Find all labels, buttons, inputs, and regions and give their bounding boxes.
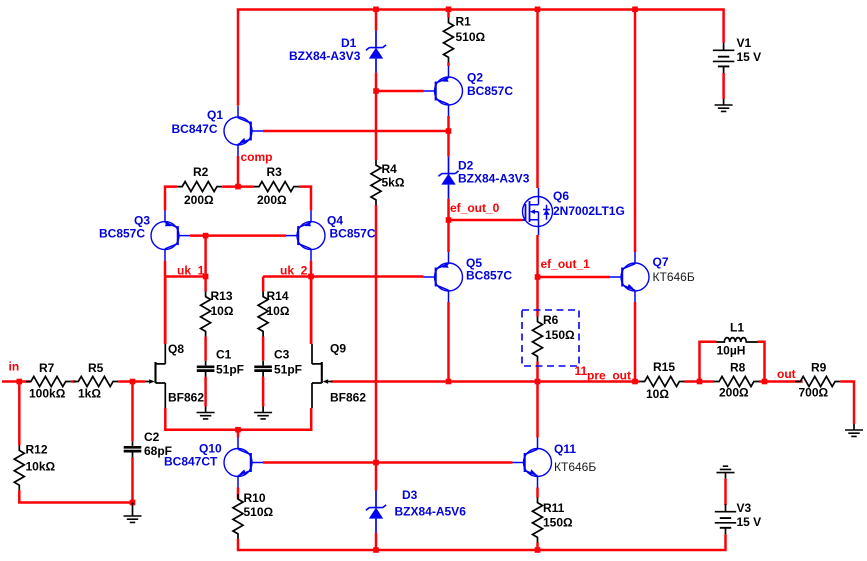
- svg-text:100kΩ: 100kΩ: [29, 387, 66, 401]
- wire V3 ground lead: [724, 479, 727, 506]
- wire ef_out_0 down to Q5 emitter: [447, 220, 450, 252]
- svg-text:D3: D3: [402, 488, 418, 502]
- svg-text:R11: R11: [543, 501, 565, 515]
- svg-text:Q3: Q3: [134, 214, 150, 228]
- transistor Q2 BC857C pnp: [424, 66, 514, 116]
- svg-text:R7: R7: [39, 361, 55, 375]
- node junction top rail / Q6 drain: [535, 7, 541, 13]
- svg-text:R2: R2: [193, 165, 209, 179]
- svg-text:10µH: 10µH: [717, 344, 746, 358]
- wire uk_2 down to Q9 drain leg: [310, 277, 313, 345]
- node comp label: [241, 150, 273, 164]
- node junction top rail / Q7 collector: [632, 7, 638, 13]
- resistor R9 700&#937;: [795, 361, 840, 400]
- svg-text:R9: R9: [811, 361, 827, 375]
- svg-text:C1: C1: [216, 348, 232, 362]
- inductor L1 10uH: [717, 321, 758, 358]
- battery V1 15 V: [713, 36, 761, 73]
- svg-text:BF862: BF862: [168, 391, 204, 405]
- jfet Q8 BF862: [145, 342, 204, 408]
- svg-text:L1: L1: [730, 321, 744, 335]
- node junction ef_out_0: [446, 217, 452, 223]
- node junction in / R12: [17, 379, 23, 385]
- svg-text:BC857C: BC857C: [330, 227, 376, 241]
- resistor R8 200&#937;: [714, 361, 759, 400]
- wire D1 anode to Q2 base / R4 top: [376, 73, 424, 91]
- svg-text:R10: R10: [244, 491, 266, 505]
- svg-text:Q2: Q2: [467, 71, 483, 85]
- wire uk_2 wire to Q5 base: [263, 275, 423, 278]
- svg-text:V3: V3: [737, 501, 752, 515]
- wire input stub to R7: [2, 380, 31, 383]
- svg-text:R1: R1: [456, 15, 472, 29]
- svg-text:R15: R15: [653, 360, 675, 374]
- wire Q2 collector down: [447, 116, 450, 131]
- svg-text:Q8: Q8: [168, 342, 184, 356]
- resistor R15 10&#937;: [640, 360, 685, 401]
- wire R1 bottom to Q2 emitter: [447, 63, 450, 67]
- wire R4 bottom down to D3: [375, 205, 378, 491]
- node junction pre_out / R6 / Q11: [535, 379, 541, 385]
- node uk_1 label: [177, 264, 205, 278]
- svg-text:ef_out_1: ef_out_1: [541, 257, 591, 271]
- svg-text:150Ω: 150Ω: [545, 328, 575, 342]
- node junction bottom rail / R11: [535, 547, 541, 553]
- svg-text:200Ω: 200Ω: [184, 193, 214, 207]
- wire node to R4 top: [375, 91, 378, 160]
- wire Q3 collector down to Q8 drain: [164, 261, 167, 344]
- svg-text:in: in: [9, 360, 20, 374]
- resistor R2 200&#937;: [177, 165, 222, 207]
- svg-text:2N7002LT1G: 2N7002LT1G: [553, 204, 625, 218]
- wire uk_1 to R13: [204, 277, 207, 292]
- node junction ground rail / C2: [130, 500, 136, 506]
- svg-text:R8: R8: [730, 361, 746, 375]
- wire C3 bottom to ground: [262, 377, 265, 407]
- ground below R9: [845, 424, 863, 436]
- transistor Q10 BC847CT npn: [164, 438, 263, 488]
- svg-text:BZX84-A3V3: BZX84-A3V3: [289, 49, 361, 63]
- svg-text:510Ω: 510Ω: [456, 30, 486, 44]
- ground below C1: [197, 407, 215, 419]
- svg-text:R4: R4: [382, 162, 398, 176]
- resistor R11 150&#937;: [533, 498, 574, 543]
- wire D2 anode to ef_out_0: [447, 199, 450, 220]
- ground above V3: [717, 466, 735, 478]
- node junction D1-R4-Q2.base: [373, 88, 379, 94]
- ground below C2/R12 rail: [124, 503, 142, 523]
- svg-text:Q7: Q7: [653, 255, 669, 269]
- node ef_out_0 label: [450, 201, 500, 215]
- wire uk_1 wire: [165, 275, 206, 278]
- transistor Q1 BC847C npn: [172, 106, 264, 156]
- wire R7 to R5: [71, 380, 76, 383]
- svg-text:Q1: Q1: [207, 108, 223, 122]
- jfet Q9 BF862: [312, 342, 366, 409]
- ground below V1: [715, 99, 733, 111]
- svg-text:10Ω: 10Ω: [646, 387, 669, 401]
- svg-text:uk_2: uk_2: [280, 264, 308, 278]
- node junction out / L1 right: [762, 379, 768, 385]
- svg-text:R5: R5: [88, 361, 104, 375]
- zener diode D2 BZX84-A3V3: [438, 157, 529, 199]
- wire R13 bottom to C1: [204, 337, 207, 361]
- wire C2 bottom to ground rail: [131, 457, 134, 502]
- svg-text:D2: D2: [458, 159, 474, 173]
- svg-text:10Ω: 10Ω: [211, 304, 234, 318]
- node junction bottom rail / D3: [373, 547, 379, 553]
- wire Q10 emitter to R10: [237, 488, 240, 500]
- battery V3 15 V: [715, 501, 761, 534]
- wire Q8/Q9 source rail: [165, 408, 311, 430]
- node junction base rail tee: [203, 233, 209, 239]
- node junction pre_out / Q5 collector: [446, 379, 452, 385]
- svg-text:200Ω: 200Ω: [257, 193, 287, 207]
- wire Q1 base to Q2 collector node: [263, 130, 449, 133]
- node uk_2 label: [280, 264, 308, 278]
- wire Q10 base to Q11 base rail: [263, 461, 513, 464]
- wire top rail down to Q6 drain: [536, 9, 539, 188]
- wire uk_2 to R14: [262, 277, 265, 292]
- resistor R12 10k&#937;: [14, 443, 55, 491]
- transistor Q11 KT646 npn: [513, 438, 597, 488]
- wire V1 minus to ground: [722, 73, 725, 99]
- svg-text:Q11: Q11: [554, 442, 576, 456]
- node ef_out_1 label: [541, 257, 591, 271]
- svg-text:BC857C: BC857C: [466, 269, 512, 283]
- wire comp via R2 to Q3 emitter: [165, 187, 238, 211]
- wire R5 to Q8 gate: [118, 380, 145, 383]
- resistor R7 100k&#937;: [26, 361, 71, 401]
- wire R6 bottom to pre_out: [536, 362, 539, 382]
- capacitor C2 68pF: [124, 430, 172, 458]
- wire Q4 collector down to Q9 drain: [310, 261, 313, 344]
- svg-text:51pF: 51pF: [216, 363, 244, 377]
- svg-text:out: out: [777, 367, 796, 381]
- node 11 pre_out label: [575, 364, 632, 383]
- svg-text:Q10: Q10: [199, 442, 222, 456]
- resistor R10 510&#937;: [233, 491, 274, 539]
- node junction R4/D3/Q10-Q11 base rail: [373, 460, 379, 466]
- svg-text:200Ω: 200Ω: [719, 386, 749, 400]
- capacitor C3 51pF: [254, 348, 302, 377]
- svg-text:R13: R13: [211, 289, 233, 303]
- wire comp via R3 to Q4 emitter: [238, 187, 311, 211]
- svg-text:R14: R14: [267, 289, 289, 303]
- resistor R4 5k&#937;: [371, 160, 405, 205]
- svg-text:BZX84-A5V6: BZX84-A5V6: [395, 505, 467, 519]
- capacitor C1 51pF: [197, 348, 244, 377]
- svg-text:BC857C: BC857C: [467, 84, 513, 98]
- svg-text:BC857C: BC857C: [99, 227, 145, 241]
- wire top rail to R1: [447, 9, 450, 17]
- node junction pre_out / Q7 emitter: [632, 379, 638, 385]
- wire ef_out_1 to Q7 base: [538, 276, 611, 279]
- wire R9 to ground branch: [840, 382, 854, 425]
- wire L1 left branch up: [700, 342, 717, 382]
- node junction source rail tee: [235, 427, 241, 433]
- node in label: [9, 360, 20, 374]
- svg-text:700Ω: 700Ω: [799, 386, 829, 400]
- svg-text:BC847CT: BC847CT: [164, 455, 218, 469]
- node junction comp / R2-R3: [235, 184, 241, 190]
- svg-text:510Ω: 510Ω: [244, 505, 274, 519]
- wire node down to C2: [131, 382, 134, 442]
- wire R15 to R8/L1: [685, 380, 715, 383]
- node junction R5-C2-Q8.gate: [130, 379, 136, 385]
- svg-text:BC847C: BC847C: [172, 122, 218, 136]
- wire C1 bottom to ground: [204, 377, 207, 407]
- zener diode D3 BZX84-A5V6: [366, 488, 466, 533]
- svg-text:R3: R3: [267, 165, 283, 179]
- wire Q6 source to ef_out_1: [536, 235, 539, 277]
- wire pre_out rail Q9 gate to R15: [331, 380, 640, 383]
- svg-text:D1: D1: [341, 36, 357, 50]
- svg-text:Q4: Q4: [327, 214, 343, 228]
- svg-text:51pF: 51pF: [274, 363, 302, 377]
- resistor R1 510&#937;: [444, 15, 486, 63]
- wire V+ top rail from Q1 collector to V1: [238, 10, 724, 106]
- node junction uk_1 / R13: [203, 274, 209, 280]
- wire Q3 base to Q4 base rail: [190, 234, 286, 237]
- wire Q11 emitter to R11: [536, 488, 539, 498]
- wire D1 cathode to top rail: [375, 9, 378, 30]
- svg-text:Q9: Q9: [330, 342, 346, 356]
- resistor R6 150&#937; with probe box: [522, 310, 579, 366]
- svg-text:10Ω: 10Ω: [267, 304, 290, 318]
- wire R8 to R9 (out): [759, 380, 803, 383]
- wire pre_out down to Q11 collector: [536, 382, 539, 438]
- wire R11 bottom to bottom rail: [536, 543, 539, 551]
- transistor Q3 BC857C pnp: [99, 211, 190, 261]
- wire in node down to R12: [18, 382, 21, 446]
- svg-text:Q6: Q6: [553, 189, 569, 203]
- svg-text:BZX84-A3V3: BZX84-A3V3: [458, 172, 530, 186]
- wire bottom rail R10 to V3: [238, 534, 726, 550]
- node junction R8/L1 left: [697, 379, 703, 385]
- zener diode D1 BZX84-A3V3: [289, 31, 386, 73]
- wire base rail down to uk_1: [204, 236, 207, 277]
- svg-text:КТ646Б: КТ646Б: [653, 270, 695, 284]
- wire Q7 emitter to pre_out rail: [634, 302, 637, 382]
- wire D3 anode to bottom rail: [375, 533, 378, 550]
- transistor Q5 BC857C pnp: [424, 252, 513, 302]
- wire R12 bottom to ground rail: [19, 490, 132, 502]
- svg-text:5kΩ: 5kΩ: [382, 176, 405, 190]
- svg-text:V1: V1: [737, 36, 752, 50]
- resistor R13 10&#937;: [201, 289, 234, 337]
- ground below C3: [254, 407, 272, 419]
- wire ef_out_0 to Q6 gate: [449, 219, 523, 222]
- svg-text:pre_out: pre_out: [587, 369, 631, 383]
- svg-text:C3: C3: [274, 348, 290, 362]
- resistor R3 200&#937;: [254, 165, 299, 207]
- svg-text:150Ω: 150Ω: [543, 516, 573, 530]
- wire node down to D2 cathode: [447, 131, 450, 157]
- svg-text:comp: comp: [241, 150, 273, 164]
- wire uk_1 down to Q8 drain leg: [164, 277, 167, 345]
- svg-text:КТ646Б: КТ646Б: [554, 460, 596, 474]
- mosfet Q6 2N7002LT1G: [523, 188, 625, 235]
- svg-text:BF862: BF862: [330, 391, 366, 405]
- node junction top rail / R1: [446, 7, 452, 13]
- wire L1 right branch down: [758, 342, 765, 382]
- wire ef_out_1 down to R6: [536, 277, 539, 317]
- svg-text:11: 11: [575, 364, 588, 378]
- wire source rail to Q10 collector: [237, 430, 240, 438]
- wire R14 bottom to C3: [262, 337, 265, 361]
- resistor R14 10&#937;: [258, 289, 290, 337]
- node junction uk_2 / Q4 collector: [308, 274, 314, 280]
- resistor R5 1k&#937;: [73, 361, 118, 401]
- wire top rail down to Q7 collector: [634, 9, 637, 252]
- svg-text:R6: R6: [543, 313, 559, 327]
- node junction Q1.base/Q2.coll/D2: [446, 128, 452, 134]
- svg-text:15 V: 15 V: [737, 50, 762, 64]
- svg-text:R12: R12: [26, 443, 48, 457]
- svg-text:1kΩ: 1kΩ: [78, 387, 101, 401]
- svg-text:C2: C2: [144, 430, 160, 444]
- node junction top rail / D1: [373, 7, 379, 13]
- svg-text:10kΩ: 10kΩ: [26, 460, 56, 474]
- wire Q1 emitter comp node: [237, 156, 240, 187]
- svg-text:15 V: 15 V: [737, 515, 762, 529]
- svg-text:ef_out_0: ef_out_0: [450, 201, 500, 215]
- node junction ef_out_1: [535, 274, 541, 280]
- transistor Q4 BC857C pnp: [286, 211, 376, 261]
- transistor Q7 KT646 npn: [610, 252, 695, 302]
- wire Q5 collector to pre_out rail: [447, 302, 450, 382]
- svg-text:uk_1: uk_1: [177, 264, 205, 278]
- node out label: [777, 367, 796, 381]
